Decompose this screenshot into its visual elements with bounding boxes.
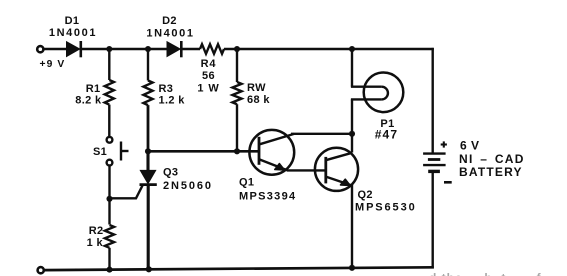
resistor R4: [200, 44, 224, 54]
battery B1: [423, 154, 446, 172]
diode D2: [167, 41, 181, 57]
thyristor Q3: [110, 151, 157, 269]
transistor Q1: [249, 130, 294, 175]
svg-text:MPS3394: MPS3394: [239, 191, 296, 203]
label R4 56: [202, 70, 215, 82]
svg-text:8.2 k: 8.2 k: [75, 95, 102, 107]
node junction R2/bottom rail: [106, 267, 112, 273]
label Q3: [163, 167, 178, 179]
node junction lamp/top rail: [349, 46, 355, 52]
label R4: [201, 58, 217, 70]
ground terminal: [38, 267, 44, 273]
wire Q1 collector to node: [291, 133, 352, 135]
svg-text:NI – CAD: NI – CAD: [459, 152, 525, 166]
node junction R3/base wire: [145, 148, 151, 154]
label D2 1N4001: [146, 28, 194, 40]
wire battery to bottom rail: [432, 172, 434, 269]
diode D1: [67, 41, 81, 57]
switch S1: [107, 137, 129, 166]
node junction R1/top rail: [106, 46, 112, 52]
svg-text:Q1: Q1: [239, 177, 254, 189]
svg-text:1N4001: 1N4001: [49, 27, 97, 39]
svg-text:1 W: 1 W: [197, 83, 219, 95]
wire Q2 emitter to bottom rail: [351, 184, 353, 268]
wire S1 to gate node: [108, 166, 110, 200]
label S1: [93, 146, 107, 158]
label +9 V: [40, 59, 66, 70]
svg-text:6 V: 6 V: [460, 139, 480, 153]
label Q2 MPS6530: [355, 202, 417, 214]
svg-text:d the b t f: d the b t f: [429, 271, 542, 276]
node junction collectors/lamp: [349, 131, 355, 137]
svg-text:2N5060: 2N5060: [163, 180, 213, 192]
svg-text:Q2: Q2: [358, 189, 373, 201]
label Q1: [239, 177, 254, 189]
wire base rail to Q1: [148, 150, 260, 153]
label P1 #47: [375, 128, 399, 142]
label Q2: [358, 189, 373, 201]
svg-text:#47: #47: [375, 128, 399, 142]
label R2 1 k: [87, 237, 104, 249]
label BATTERY: [459, 165, 523, 179]
svg-text:+9 V: +9 V: [40, 59, 66, 70]
label R3 1.2 k: [159, 95, 186, 107]
label P1: [380, 118, 394, 130]
svg-text:MPS6530: MPS6530: [355, 202, 417, 214]
label D2: [162, 15, 177, 27]
resistor R2: [105, 199, 114, 270]
node junction RW/base wire: [234, 148, 240, 154]
svg-text:D1: D1: [65, 15, 80, 27]
label R1 8.2 k: [75, 95, 102, 107]
svg-text:1N4001: 1N4001: [146, 28, 194, 40]
label Q1 MPS3394: [239, 191, 296, 203]
wire D1 to D2: [81, 48, 168, 51]
svg-text:S1: S1: [93, 146, 107, 158]
label R2: [89, 225, 104, 237]
label 6 V: [460, 139, 480, 153]
wire right rail down to battery: [432, 48, 434, 153]
wire Q2 collector to node: [351, 134, 353, 153]
label battery +: [441, 141, 447, 147]
resistor RW: [232, 49, 241, 151]
faint caption bleed at bottom edge: [429, 271, 542, 276]
input terminal +9V: [37, 46, 43, 52]
label RW: [247, 82, 266, 94]
svg-text:R1: R1: [86, 83, 101, 95]
svg-text:D2: D2: [162, 15, 177, 27]
label RW 68 k: [247, 94, 270, 106]
svg-text:1.2 k: 1.2 k: [159, 95, 186, 107]
label Q3 2N5060: [163, 180, 213, 192]
svg-text:RW: RW: [247, 82, 266, 94]
label R3: [159, 83, 174, 95]
svg-text:1 k: 1 k: [87, 237, 104, 249]
label D1: [65, 15, 80, 27]
resistor R3: [143, 49, 152, 152]
node junction gate/R2: [106, 196, 112, 202]
svg-text:BATTERY: BATTERY: [459, 165, 523, 179]
wire D2 to R4: [181, 48, 200, 50]
label NI-CAD: [459, 152, 525, 166]
label battery -: [444, 181, 452, 184]
wire terminal to D1: [44, 48, 68, 51]
node junction RW/top rail: [234, 46, 240, 52]
transistor Q2: [315, 148, 358, 191]
svg-text:56: 56: [202, 70, 215, 82]
label D1 1N4001: [49, 27, 97, 39]
bottom rail wire: [44, 267, 434, 270]
node junction Q2 emitter/bottom rail: [349, 265, 355, 271]
wire Q1 emitter to Q2 base: [287, 169, 327, 171]
svg-text:68 k: 68 k: [247, 94, 270, 106]
lamp P1: [351, 49, 403, 134]
svg-text:Q3: Q3: [163, 167, 178, 179]
label R4 1 W: [197, 83, 219, 95]
label R1: [86, 83, 101, 95]
svg-text:R4: R4: [201, 58, 217, 70]
node junction Q3/bottom rail: [146, 266, 152, 272]
node junction R3/top rail: [145, 46, 151, 52]
svg-text:R3: R3: [159, 83, 174, 95]
wire R4 to top-right corner: [224, 48, 434, 51]
resistor R1: [105, 49, 114, 137]
svg-text:R2: R2: [89, 225, 104, 237]
